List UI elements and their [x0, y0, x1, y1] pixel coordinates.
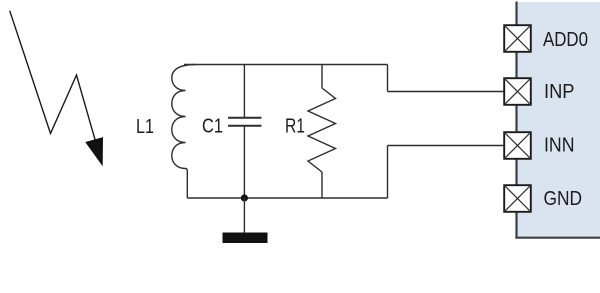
wire: vertical step down to INP: [387, 65, 389, 92]
inductor L1: [172, 65, 196, 199]
antenna lightning arrow: [10, 11, 98, 150]
wire: ground stub: [243, 198, 245, 233]
resistor R1 zigzag: [308, 88, 336, 172]
pad ADD0: [504, 25, 531, 52]
svg-text:INP: INP: [544, 80, 575, 103]
capacitor C1 bottom lead: [243, 126, 245, 198]
chip U1 left border: [515, 2, 517, 239]
svg-text:R1: R1: [285, 115, 305, 138]
pad GND: [504, 185, 531, 212]
capacitor C1 top lead: [243, 65, 245, 118]
pad INN: [504, 132, 531, 159]
svg-text:GND: GND: [544, 187, 583, 210]
pad INP: [504, 78, 531, 105]
svg-text:ADD0: ADD0: [543, 28, 588, 51]
svg-text:L1: L1: [136, 115, 154, 138]
wire: INP horizontal to pad: [388, 91, 505, 93]
chip U1 bottom border: [515, 237, 600, 239]
wire: INN horizontal to pad: [388, 145, 505, 147]
capacitor C1 plates: [228, 117, 262, 119]
chip U1 body: [517, 2, 600, 238]
wire: top net from L1 to corner: [184, 64, 388, 66]
wire: vertical step up to INN: [387, 146, 389, 199]
svg-text:C1: C1: [202, 115, 223, 138]
resistor R1 bottom lead: [321, 172, 323, 198]
antenna arrowhead: [86, 138, 103, 165]
wire: bottom net from L1 to corner: [187, 197, 387, 199]
svg-text:INN: INN: [544, 134, 575, 157]
resistor R1 top lead: [321, 65, 323, 89]
node: junction dot at C1 bottom / ground: [241, 194, 248, 201]
ground: [223, 233, 268, 244]
